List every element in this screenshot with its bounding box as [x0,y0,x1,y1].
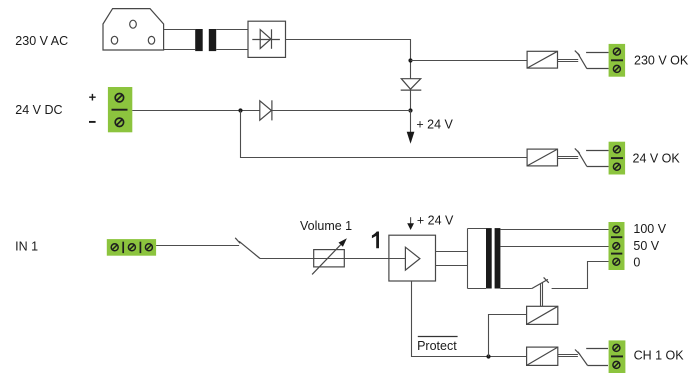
label Volume 1 [300,219,352,233]
node junction 24V-OK branch [238,108,242,112]
wire diode to +24V junction [410,90,412,110]
terminal block X2 230V OK [609,44,626,77]
amplifier A1 triangle [405,247,420,270]
amplifier A1 (box) [389,235,436,281]
label 0 [633,256,640,270]
node +24V junction [408,108,412,112]
wire plug to transformer (top) [164,29,196,31]
wire transformer to rectifier (top) [216,29,248,31]
screw X6-1 [613,344,620,351]
svg-text:230 V OK: 230 V OK [634,53,689,67]
svg-text:+ 24 V: + 24 V [416,117,453,131]
screw X1-2 [115,118,123,126]
screw X4-1 [111,244,118,251]
output transformer T2 primary [468,229,487,289]
wire 0 tap to mute contact [500,288,532,290]
node protect junction [486,354,490,358]
screw X2-1 [613,48,620,55]
relay K2 (24 V OK) [527,149,557,166]
relay K4 (CH 1 OK) [527,347,558,365]
screw X2-2 [613,65,620,72]
wire branch down to 24V-OK relay [241,111,528,158]
linkage K2 to contact [558,157,579,159]
diode V3 [260,100,272,120]
svg-text:0: 0 [633,256,640,270]
wire 0 tap after contact [552,262,609,289]
svg-text:24 V OK: 24 V OK [633,151,681,165]
relay K3 (mute) [527,306,558,324]
svg-text:CH 1 OK: CH 1 OK [634,348,685,362]
wire amplifier output bottom [436,265,468,267]
input switch S1 [235,238,260,259]
wire diode V3 to +24V junction [272,110,411,112]
svg-text:24 V DC: 24 V DC [15,103,62,117]
label IN 1 [15,239,38,253]
contact K4 (CH 1 OK) [575,349,608,366]
linkage K1 to contact [558,60,579,62]
svg-text:50 V: 50 V [633,239,659,253]
potentiometer arrow head [339,238,347,247]
screw X3-1 [613,146,620,153]
wire amplifier protect output [412,281,527,357]
wire 50V tap [500,246,608,248]
wire transformer to rectifier (bottom) [216,49,248,51]
wire rectifier output to +24V node [286,40,411,79]
label + [89,89,97,104]
label CH 1 OK [634,348,685,362]
svg-text:+ 24 V: + 24 V [417,213,454,227]
wire 100V tap [500,229,608,231]
label 230 V AC [15,34,68,48]
svg-text:Protect: Protect [417,339,457,353]
mains plug P1 [103,9,164,50]
screw X4-2 [128,244,135,251]
label 1 (channel number) [372,232,379,249]
+24 V arrow (net +24V) [407,111,415,144]
wire junction to relay K1 [411,60,528,62]
relay K1 (230 V OK) [527,51,557,68]
label - [89,121,96,123]
svg-text:Volume 1: Volume 1 [300,219,352,233]
contact K3 (speaker mute) [532,277,549,288]
screw X3-2 [613,163,620,170]
label 50 V [633,239,659,253]
screw X4-3 [145,244,152,251]
rectifier V1 (diode in box) [248,21,286,57]
terminal block X1 24V DC [108,87,132,132]
screw X5-1 [613,226,620,233]
terminal block X6 CH1 OK [609,340,626,373]
linkage K3 to contact [541,283,543,307]
svg-text:IN 1: IN 1 [15,239,38,253]
screw X1-1 [115,94,123,102]
label 230 V OK [634,53,689,67]
label Protect (active low) [417,337,458,353]
wire protect junction to relay K3 [489,315,527,357]
label 100 V [633,222,666,236]
terminal block X4 IN1 [107,239,156,256]
terminal block X3 24V OK [609,142,626,175]
label + 24 V (amplifier) [417,213,454,227]
terminal block X5 outputs [609,222,625,270]
svg-text:230 V AC: 230 V AC [15,34,68,48]
label 24 V DC [15,103,62,117]
svg-text:+: + [89,89,97,104]
screw X5-3 [613,258,620,265]
diode V2 (down) [401,79,422,90]
label + 24 V (top) [416,117,453,131]
svg-text:100 V: 100 V [633,222,666,236]
wire plug to transformer (bottom) [164,49,196,51]
wire IN1 to input switch [156,245,239,247]
linkage K4 to contact [558,355,578,357]
contact K1 (230 V OK) [575,51,609,69]
screw X5-2 [613,243,620,250]
contact K2 (24 V OK) [575,148,609,166]
wire switch to volume [260,258,405,260]
node junction to 230V-OK relay [408,58,412,62]
wire 24V DC to diode V3 [132,110,259,112]
+24V supply arrow to amplifier [407,217,414,230]
label 24 V OK [633,151,681,165]
output transformer T2 core [486,228,500,288]
potentiometer Volume 1 [312,245,344,275]
wire amplifier output top [436,251,468,253]
screw X6-2 [613,361,620,368]
mains transformer T1 (core bars) [195,29,216,51]
